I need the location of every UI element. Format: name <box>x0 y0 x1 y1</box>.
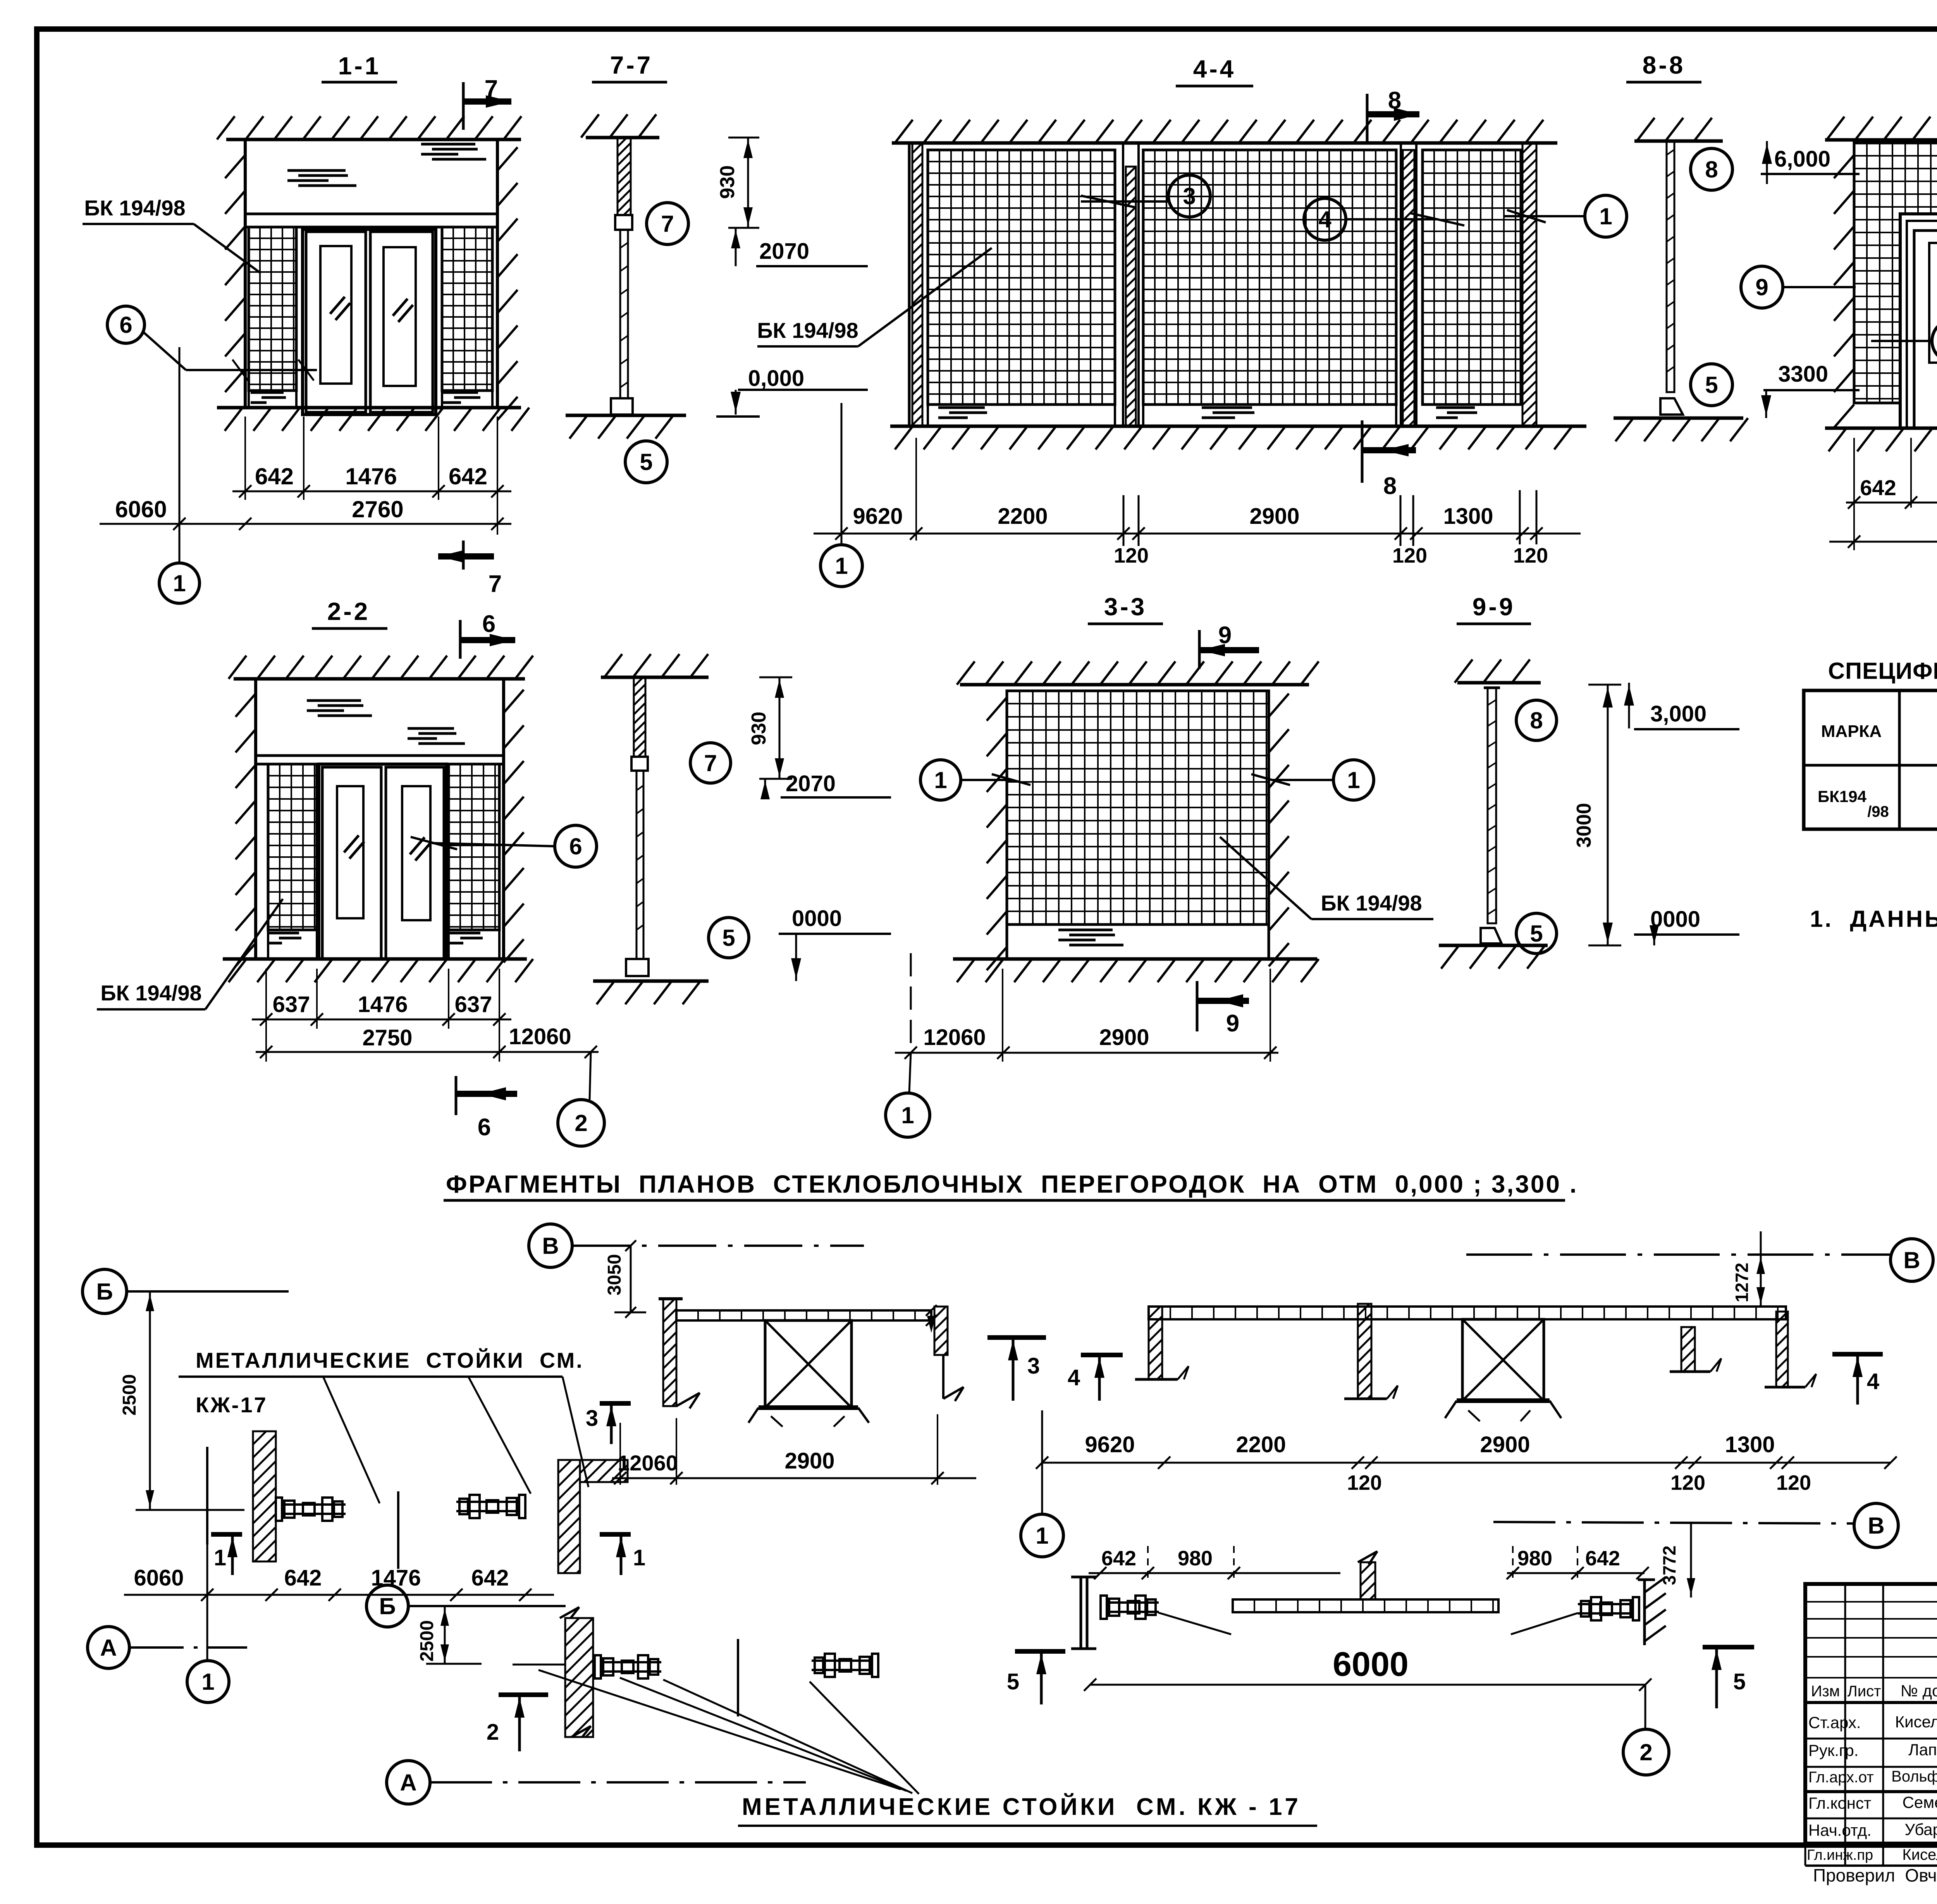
svg-text:2900: 2900 <box>784 1448 834 1474</box>
view 9-9 stud <box>1488 688 1496 923</box>
view 1-1 dimension row 642/1476/642 <box>232 491 511 492</box>
svg-text:12060: 12060 <box>618 1451 678 1475</box>
svg-text:6,000: 6,000 <box>1774 146 1830 172</box>
svg-text:8: 8 <box>1705 157 1718 182</box>
title block outer box <box>1805 1584 1937 1844</box>
view 1-1 ceiling line <box>226 138 521 141</box>
plan P3 section mark 3 left <box>987 1335 1046 1340</box>
svg-text:1476: 1476 <box>358 992 408 1017</box>
plan P1 section mark 1 right <box>600 1532 631 1537</box>
view 1-1 left wall edge <box>244 139 247 408</box>
shared dim 930 vertical <box>747 138 749 228</box>
svg-text:6: 6 <box>569 833 582 859</box>
view 5-5 door 1 glazing <box>1929 243 1937 363</box>
plan P3 small column <box>1681 1327 1695 1372</box>
view 7-7 base plate <box>611 398 633 415</box>
view 2-2 doors <box>319 764 447 959</box>
svg-text:6: 6 <box>478 1114 491 1141</box>
view 1-1 right wall edge <box>496 139 499 408</box>
title block left table verticals <box>1844 1584 1846 1866</box>
view 7-7b floor line <box>593 980 709 983</box>
svg-text:3772: 3772 <box>1659 1546 1679 1585</box>
plan P1 section mark 3 right <box>600 1401 631 1406</box>
view 2-2 ceiling line <box>234 677 525 681</box>
svg-text:642: 642 <box>1101 1547 1136 1570</box>
view 5-5 extension lines <box>1853 438 1855 550</box>
svg-text:Рук.гр.: Рук.гр. <box>1808 1741 1858 1759</box>
plan P3 axis circle V <box>1891 1239 1933 1281</box>
svg-text:1: 1 <box>173 570 186 596</box>
view 7-7 callout circle 5 <box>625 441 667 483</box>
svg-text:Нач.отд.: Нач.отд. <box>1808 1821 1872 1839</box>
section mark 7 top of view 1-1 <box>462 82 465 130</box>
plan P2c X-brace box <box>765 1320 852 1408</box>
svg-text:642: 642 <box>449 463 487 489</box>
view 9-9 floor line <box>1439 944 1548 947</box>
section mark 9 bottom of view 3-3 <box>1196 981 1199 1031</box>
view 3-3 floor line <box>953 957 1317 961</box>
svg-text:980: 980 <box>1178 1547 1213 1570</box>
view 4-4 axis circle 1 <box>821 545 862 587</box>
plan P2 center post <box>737 1639 739 1716</box>
view 7-7b stud hatched part <box>634 677 645 757</box>
svg-text:1: 1 <box>901 1102 914 1128</box>
plan P4 bolt assembly 1 <box>1101 1596 1107 1619</box>
view 3-3 callout circle 1 right <box>1333 760 1374 800</box>
svg-text:2070: 2070 <box>786 771 836 796</box>
plan P1 axis circle V <box>529 1224 572 1267</box>
svg-text:5: 5 <box>1733 1669 1746 1694</box>
svg-text:2200: 2200 <box>1236 1432 1286 1457</box>
svg-text:12060: 12060 <box>923 1025 986 1050</box>
svg-text:120: 120 <box>1114 544 1149 567</box>
svg-text:Кисельман: Кисельман <box>1895 1713 1937 1731</box>
spec table box <box>1804 690 1937 829</box>
plan P1 axis circle B <box>83 1269 127 1314</box>
svg-text:6060: 6060 <box>134 1565 184 1591</box>
svg-text:8-8: 8-8 <box>1643 51 1686 79</box>
view 8-8 ceiling line <box>1634 139 1723 143</box>
view 8-8 level 6000 <box>1766 141 1768 184</box>
plan P1 corner wall <box>558 1460 580 1573</box>
svg-text:/98: /98 <box>1867 803 1889 820</box>
svg-text:А: А <box>400 1770 416 1796</box>
view 1-1 lintel lines <box>245 213 497 215</box>
svg-text:8: 8 <box>1388 87 1401 114</box>
view 8-8 base plate <box>1660 398 1683 415</box>
svg-text:8: 8 <box>1383 473 1397 499</box>
view 4-4 ceiling line <box>892 141 1557 145</box>
svg-text:2500: 2500 <box>119 1374 140 1416</box>
plan P3 axis circle V second <box>1493 1522 1854 1524</box>
svg-text:2500: 2500 <box>417 1620 437 1662</box>
view 3-3 callout circle 1 left <box>920 760 961 800</box>
svg-text:1: 1 <box>201 1669 214 1695</box>
view 1-1 left wall hatch <box>225 155 245 392</box>
view 8-8 callout circle 8 <box>1691 148 1732 190</box>
view 1-1 concrete squiggles upper band <box>287 170 356 186</box>
svg-text:5: 5 <box>1530 921 1543 947</box>
plan P4 diagonal left <box>1158 1613 1231 1634</box>
svg-text:БК 194/98: БК 194/98 <box>84 196 185 220</box>
plan P3 section mark 4 left <box>1081 1353 1123 1357</box>
svg-text:642: 642 <box>471 1565 509 1591</box>
plan P3 X-brace box <box>1462 1319 1544 1401</box>
svg-text:930: 930 <box>716 165 739 199</box>
svg-text:1: 1 <box>934 767 947 793</box>
view 1-1 right wall hatch <box>497 147 518 420</box>
view 3-3 wall hatch right <box>1269 694 1289 966</box>
view 5-5 door 1 opening <box>1900 214 1937 428</box>
section mark 8 bottom of view 4-4 <box>1361 420 1364 483</box>
svg-text:БК194: БК194 <box>1818 787 1867 806</box>
plan P4 right wall end <box>1643 1580 1646 1645</box>
svg-text:9-9: 9-9 <box>1473 593 1516 621</box>
plan P3 right end column <box>1776 1312 1788 1387</box>
svg-text:2900: 2900 <box>1099 1025 1149 1050</box>
view 4-4 panel 2 grid <box>1143 150 1396 405</box>
view 2-2 floor line <box>223 957 527 961</box>
view 9-9 circle 5 <box>1516 913 1557 954</box>
plan P4 section mark 5 left <box>1015 1649 1065 1654</box>
view 5-5 lower band <box>1854 402 1937 404</box>
svg-text:Б: Б <box>96 1279 113 1305</box>
view 7-7b base plate <box>626 959 649 976</box>
plan P1 bolt assembly 2 <box>456 1495 525 1518</box>
view 8-8 callout circle 9 <box>1741 266 1783 308</box>
plan P4 bolt assembly 2 <box>1578 1597 1639 1620</box>
svg-text:МЕТАЛЛИЧЕСКИЕ СТОЙКИ СМ. КЖ -: МЕТАЛЛИЧЕСКИЕ СТОЙКИ СМ. КЖ - 17 <box>742 1793 1301 1820</box>
view 7-7b circle 7 <box>690 743 731 783</box>
svg-text:2900: 2900 <box>1249 504 1299 529</box>
plan P2 leader fan to text <box>620 1678 907 1791</box>
section mark 6 top of view 2-2 <box>459 620 462 659</box>
svg-text:9: 9 <box>1226 1010 1239 1037</box>
svg-text:1272: 1272 <box>1732 1263 1752 1302</box>
svg-text:9620: 9620 <box>853 504 903 529</box>
view 1-1 double door <box>303 229 436 415</box>
plan P2 bolt assembly <box>595 1655 601 1678</box>
svg-text:1: 1 <box>835 553 848 579</box>
view 4-4 callout circle 3 <box>1168 175 1210 217</box>
view 1-1 left glass block panel <box>249 227 296 391</box>
svg-text:Убарьев: Убарьев <box>1904 1820 1937 1839</box>
svg-text:637: 637 <box>273 992 310 1017</box>
svg-text:7: 7 <box>661 211 674 237</box>
plan P2 partition axis line <box>513 1664 565 1666</box>
shared level 2070 <box>735 228 737 266</box>
svg-text:МАРКА: МАРКА <box>1821 722 1882 741</box>
view 4-4 callout circle 4 <box>1304 198 1346 240</box>
plan P1 section mark 1 left <box>206 1447 208 1544</box>
svg-text:В: В <box>542 1233 559 1259</box>
svg-text:4: 4 <box>1867 1369 1879 1394</box>
svg-text:3-3: 3-3 <box>1104 593 1147 621</box>
plan P1 bolt assembly 1 <box>276 1498 282 1521</box>
view 2-2 dim row 637/1476/637 <box>252 1019 511 1021</box>
view 7-7 ceiling line <box>586 136 659 139</box>
svg-text:120: 120 <box>1670 1471 1705 1494</box>
svg-text:9: 9 <box>1218 622 1232 649</box>
view 4-4 dim row 9620/2200/2900/1300 <box>814 533 1581 535</box>
svg-text:642: 642 <box>284 1565 322 1591</box>
svg-text:В: В <box>1903 1247 1920 1273</box>
svg-text:5: 5 <box>1007 1669 1019 1694</box>
view 3-3 ceiling line <box>960 683 1309 687</box>
svg-text:1: 1 <box>1599 203 1612 229</box>
view 2-2 right glass panel <box>449 764 499 930</box>
view 7-7 stud collar <box>615 215 632 230</box>
view 2-2 right wall edge <box>502 679 505 959</box>
svg-text:Гл.арх.от: Гл.арх.от <box>1808 1769 1874 1786</box>
svg-text:6: 6 <box>119 312 132 338</box>
plan P2c glass block strip <box>676 1310 931 1320</box>
view 7-7b level 2070 <box>764 779 766 797</box>
svg-text:БК 194/98: БК 194/98 <box>1321 891 1422 915</box>
section mark 7 bottom of view 1-1 <box>462 541 465 570</box>
view 4-4 axis line 1 <box>841 403 843 544</box>
section mark 9 top of view 3-3 <box>1198 630 1201 669</box>
svg-text:642: 642 <box>1860 475 1896 500</box>
view 7-7 stud lower part <box>620 230 628 398</box>
plan P1 dim row 6060/642/1476/642 <box>124 1594 554 1596</box>
svg-text:В: В <box>1868 1513 1884 1539</box>
view 9-9 circle 8 <box>1516 700 1557 740</box>
svg-text:2750: 2750 <box>362 1025 412 1050</box>
plan P4 diagonal right <box>1511 1613 1578 1634</box>
view 2-2 axis circle 2 <box>590 1052 591 1100</box>
svg-text:3,000: 3,000 <box>1650 701 1706 726</box>
svg-text:642: 642 <box>1585 1547 1620 1570</box>
svg-text:120: 120 <box>1513 544 1548 567</box>
view 1-1 door glazing left <box>320 246 351 384</box>
plan P4 hatched column above strip <box>1361 1562 1375 1599</box>
svg-text:БК 194/98: БК 194/98 <box>757 318 858 343</box>
svg-text:3300: 3300 <box>1778 362 1828 387</box>
svg-text:3050: 3050 <box>604 1254 625 1296</box>
svg-text:0,000: 0,000 <box>748 366 804 391</box>
svg-text:1: 1 <box>633 1545 645 1570</box>
view 3-3 glass panel grid <box>1007 691 1269 924</box>
svg-text:Ст.арх.: Ст.арх. <box>1808 1713 1861 1732</box>
svg-text:4: 4 <box>1318 207 1331 232</box>
svg-text:Изм: Изм <box>1811 1683 1840 1700</box>
svg-text:1: 1 <box>1036 1523 1048 1549</box>
view 1-1 extension lines to dims <box>244 417 246 500</box>
plan P2 axis circle A <box>387 1761 430 1804</box>
view 2-2 lintel lines <box>256 754 504 757</box>
svg-text:9: 9 <box>1755 274 1768 300</box>
svg-text:120: 120 <box>1776 1471 1811 1494</box>
svg-text:980: 980 <box>1517 1547 1552 1570</box>
svg-text:Проверил Овчаренко: Проверил Овчаренко <box>1813 1865 1937 1885</box>
view 5-5 dim 6000 <box>1829 541 1937 543</box>
view 7-7 callout circle 7 <box>647 203 688 244</box>
view 4-4 left wall column <box>908 143 911 426</box>
svg-text:4: 4 <box>1068 1365 1080 1390</box>
view 3-3 wall hatch left <box>987 697 1007 970</box>
svg-text:3: 3 <box>586 1406 598 1431</box>
plan P1 axis circle A <box>88 1627 129 1668</box>
svg-text:7: 7 <box>485 76 498 102</box>
plan P3 dim 1272 <box>1760 1231 1762 1307</box>
view 2-2 callout circle 6 <box>555 825 597 867</box>
view 7-7b ceiling line <box>601 676 709 679</box>
plan P3 section mark 4 right <box>1832 1352 1883 1357</box>
plan P3 left end column <box>1149 1307 1162 1379</box>
svg-text:2900: 2900 <box>1480 1432 1530 1457</box>
svg-text:1. ДАННЫЙ ЛИСТ СМ. СОВМЕСТН: 1. ДАННЫЙ ЛИСТ СМ. СОВМЕСТНО С ЛИСТОМ АР… <box>1810 906 1937 932</box>
plan P2c dim row 12060/2900 <box>612 1477 976 1479</box>
view 2-2 left glass panel <box>268 764 317 930</box>
svg-text:7-7: 7-7 <box>610 51 653 79</box>
plan P1 center post <box>397 1491 399 1569</box>
view 1-1 axis circle 1 <box>159 563 200 603</box>
svg-text:930: 930 <box>748 712 770 745</box>
svg-text:Лист: Лист <box>1848 1683 1881 1700</box>
plan P4 dim 6000 <box>1090 1684 1645 1686</box>
plan P2 bolt assembly 2 <box>812 1654 878 1677</box>
svg-text:9620: 9620 <box>1085 1432 1135 1457</box>
view 5-5 floor line <box>1825 427 1937 430</box>
svg-text:2200: 2200 <box>998 504 1048 529</box>
view 7-7 floor line <box>566 414 686 417</box>
svg-text:0000: 0000 <box>792 906 842 931</box>
view 2-2 extension lines <box>265 969 267 1062</box>
view 7-7b stud collar <box>631 757 648 771</box>
svg-text:1: 1 <box>1347 767 1360 793</box>
svg-text:3000: 3000 <box>1573 803 1595 848</box>
section mark 8 top of view 4-4 <box>1366 94 1369 143</box>
svg-text:2: 2 <box>575 1110 587 1136</box>
view 7-7b dim 930 <box>779 677 781 779</box>
view 7-7b stud lower <box>636 771 643 959</box>
svg-text:2: 2 <box>1639 1739 1652 1765</box>
svg-text:Семенов: Семенов <box>1903 1793 1937 1811</box>
view 2-2 door glazing <box>337 786 363 918</box>
svg-text:8: 8 <box>1530 708 1543 733</box>
svg-text:2070: 2070 <box>759 239 809 264</box>
svg-text:6000: 6000 <box>1333 1645 1409 1683</box>
view 3-3 dim row 12060/2900 <box>895 1052 1278 1054</box>
svg-text:Киселева: Киселева <box>1902 1846 1937 1863</box>
view 9-9 base plate <box>1481 928 1502 943</box>
section mark 6 bottom of view 2-2 <box>455 1076 458 1115</box>
plan P4 glass strip <box>1233 1599 1498 1612</box>
plan P4 left wall end <box>1080 1577 1082 1649</box>
plan P3 glass block wall strip <box>1149 1307 1786 1319</box>
view 1-1 axis line 1 <box>179 347 181 563</box>
view 5-5 left wall hatch <box>1834 155 1854 428</box>
plan P2c right break mark <box>942 1355 944 1399</box>
plan P2 section mark 2 left <box>499 1692 548 1697</box>
plan P2c extension lines <box>619 1423 621 1485</box>
view 2-2 dim row 2750/12060 <box>256 1051 599 1053</box>
view 4-4 mid column <box>1122 143 1124 426</box>
plan P2c left wall hatched strip <box>659 1297 683 1300</box>
svg-text:№ докум.: № докум. <box>1901 1682 1937 1700</box>
view 7-7b circle 5 <box>709 918 749 958</box>
view 1-1 dimension row 6060/2760 <box>100 523 511 525</box>
plan P1 leader diagonals <box>323 1377 380 1503</box>
plan P3 axis line 1 and circle <box>1041 1410 1043 1514</box>
view 1-1 right glass block panel <box>442 227 492 391</box>
view 3-3 axis circle 1 <box>909 1053 911 1093</box>
svg-text:1476: 1476 <box>345 463 397 489</box>
view 4-4 column 2 <box>1400 143 1402 426</box>
view 4-4 callout circle 1 right <box>1585 195 1627 237</box>
view 1-1 ceiling hatch <box>217 116 521 139</box>
view 5-5 dim row 642/980 left <box>1846 502 1937 504</box>
svg-text:А: А <box>100 1635 117 1661</box>
svg-text:2: 2 <box>487 1720 499 1745</box>
plan P4 section mark 5 right <box>1703 1645 1754 1649</box>
plan P3 mid column <box>1358 1304 1371 1399</box>
plan P1 dim 3050 <box>630 1246 632 1312</box>
svg-text:642: 642 <box>255 463 294 489</box>
view 1-1 floor hatch <box>225 408 529 431</box>
svg-text:КЖ-17: КЖ-17 <box>196 1393 268 1417</box>
view 9-9 ceiling line <box>1457 681 1541 685</box>
view 4-4 panel 1 grid <box>928 150 1115 405</box>
plan P4 axis circle 2 <box>1645 1685 1646 1729</box>
view 4-4 floor line <box>890 425 1586 428</box>
view 1-1 door glazing right <box>384 247 416 386</box>
view 5-5 callout circle 10 on door1 <box>1932 320 1937 362</box>
svg-text:ФРАГМЕНТЫ ПЛАНОВ СТЕКЛОБЛОЧН: ФРАГМЕНТЫ ПЛАНОВ СТЕКЛОБЛОЧНЫХ ПЕРЕГОРОД… <box>446 1170 1578 1198</box>
svg-text:2-2: 2-2 <box>327 597 370 625</box>
svg-text:БК 194/98: БК 194/98 <box>100 981 201 1005</box>
svg-text:4-4: 4-4 <box>1193 55 1236 83</box>
svg-text:12060: 12060 <box>509 1024 571 1049</box>
plan P1 axis circle 1 <box>206 1544 208 1660</box>
view 8-8 floor line <box>1614 417 1743 420</box>
view 2-2 squiggles <box>307 701 372 716</box>
svg-text:6: 6 <box>482 611 495 637</box>
plan P2 axis circle B <box>366 1585 408 1627</box>
view 3-3 lower band <box>1007 923 1269 926</box>
svg-text:3: 3 <box>1027 1353 1040 1379</box>
svg-text:Вольфензон: Вольфензон <box>1891 1768 1937 1785</box>
view 1-1 floor line <box>217 406 521 410</box>
svg-text:7: 7 <box>489 571 502 597</box>
svg-text:6060: 6060 <box>115 496 167 522</box>
svg-text:Лапина: Лапина <box>1908 1740 1937 1759</box>
view 4-4 right wall column <box>1522 143 1536 426</box>
svg-text:1300: 1300 <box>1443 504 1493 529</box>
svg-text:1300: 1300 <box>1725 1432 1775 1457</box>
svg-text:5: 5 <box>722 925 735 951</box>
title block left table horizontals <box>1805 1601 1937 1603</box>
plan P3 dim row 9620/2200/2900/1300 <box>1042 1462 1891 1464</box>
plan P3 axis line V <box>1466 1253 1890 1256</box>
svg-text:СПЕЦИФИКАЦИЯ ЭЛЕМЕНТОВ, ЗАМАРК: СПЕЦИФИКАЦИЯ ЭЛЕМЕНТОВ, ЗАМАРКИРОВАННЫХ … <box>1828 658 1937 684</box>
svg-text:1: 1 <box>214 1545 226 1570</box>
svg-text:3: 3 <box>1183 183 1196 209</box>
view 8-8 stud <box>1667 141 1674 392</box>
svg-text:Б: Б <box>379 1593 396 1619</box>
view 3-3 extension and axis lines <box>910 953 912 1048</box>
svg-text:1-1: 1-1 <box>338 52 381 80</box>
plan P4 dim rows 642/980 and 980/642 <box>1089 1572 1340 1574</box>
svg-text:637: 637 <box>455 992 492 1017</box>
plan P2c right end column <box>934 1307 948 1355</box>
view 4-4 panel 3 grid <box>1423 150 1521 405</box>
svg-text:120: 120 <box>1392 544 1427 567</box>
svg-text:МЕТАЛЛИЧЕСКИЕ СТОЙКИ СМ.: МЕТАЛЛИЧЕСКИЕ СТОЙКИ СМ. <box>196 1348 584 1372</box>
view 2-2 left wall edge <box>254 679 257 959</box>
svg-text:Гл.инж.пр: Гл.инж.пр <box>1807 1847 1873 1863</box>
